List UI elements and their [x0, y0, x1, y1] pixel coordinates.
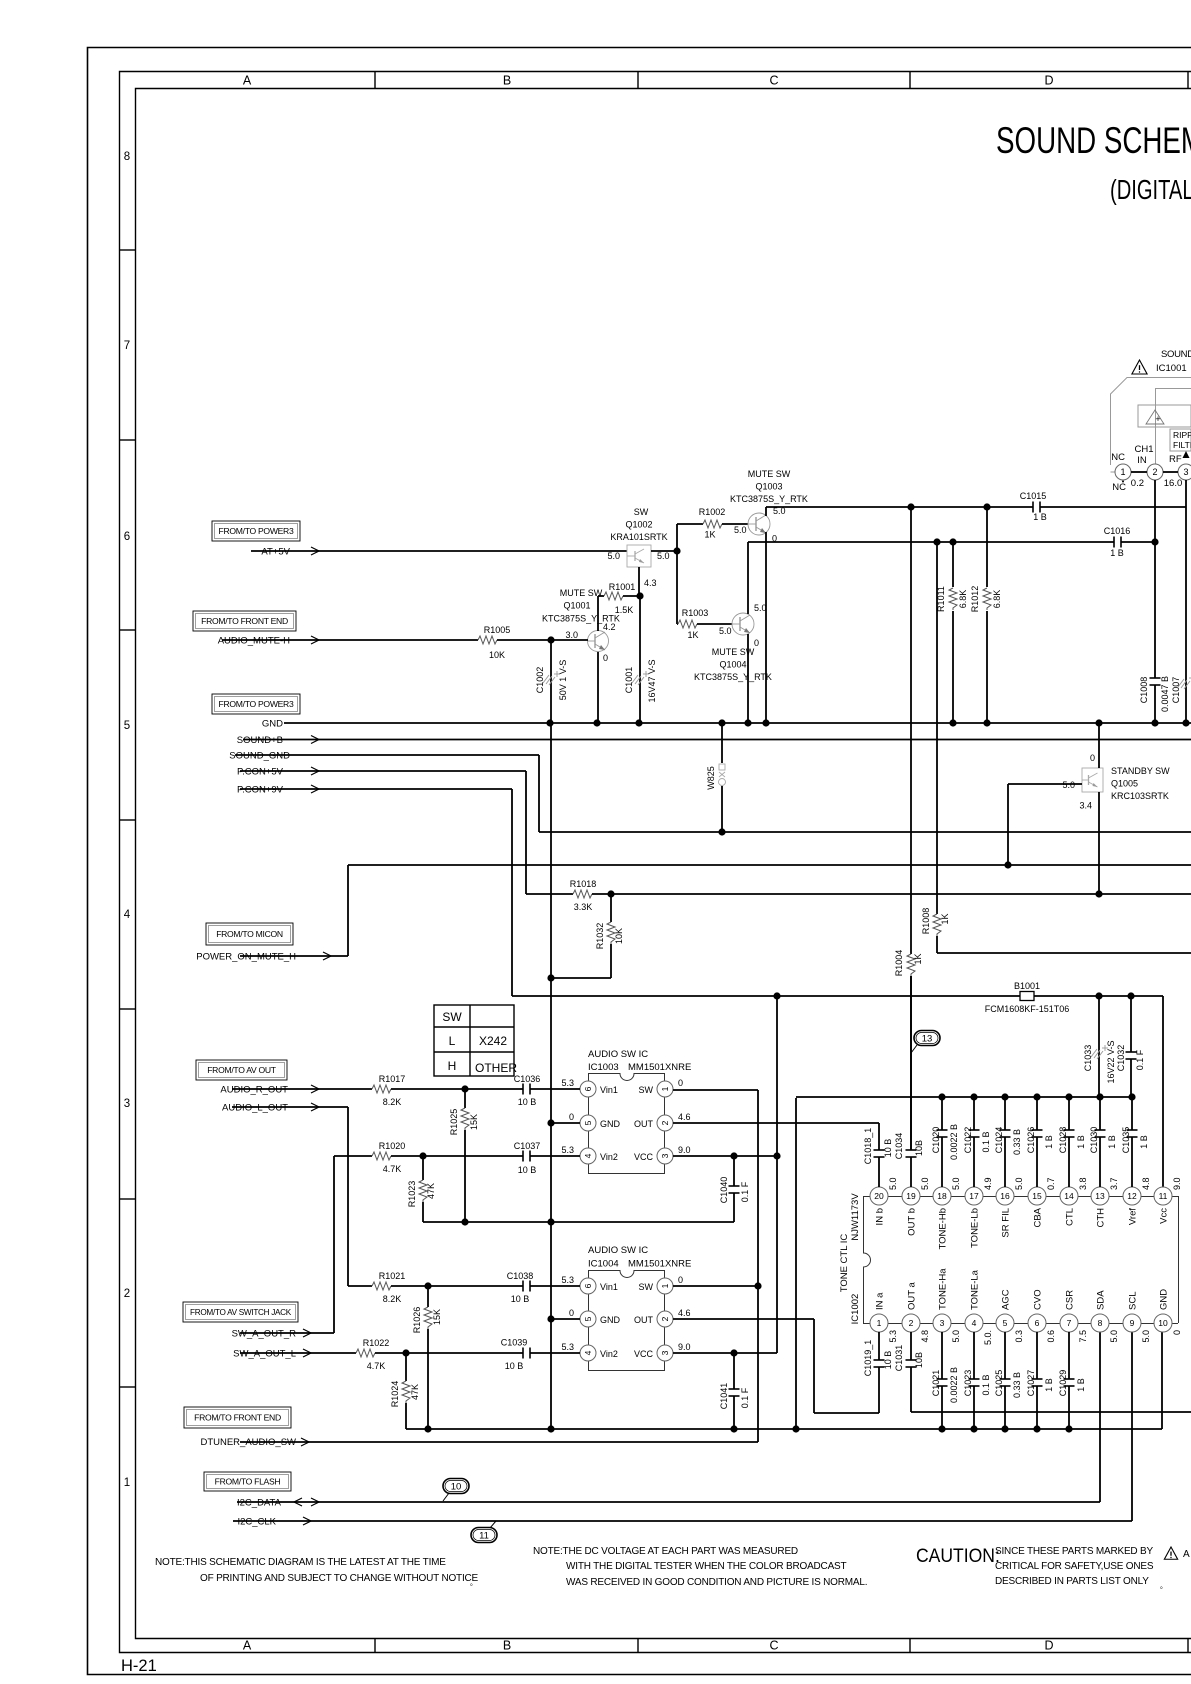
- svg-text:16.0: 16.0: [1164, 478, 1183, 489]
- svg-text:。: 。: [470, 1580, 477, 1587]
- net P.CON+9V: [237, 785, 512, 997]
- svg-text:DESCRIBED IN PARTS LIST ONLY: DESCRIBED IN PARTS LIST ONLY: [995, 1576, 1149, 1587]
- svg-text:SOUND_GND: SOUND_GND: [229, 751, 290, 762]
- svg-text:FROM/TO AV OUT: FROM/TO AV OUT: [207, 1065, 277, 1075]
- svg-text:8.2K: 8.2K: [383, 1097, 402, 1107]
- svg-text:R1022: R1022: [363, 1338, 390, 1348]
- wire IC1003 VCC rail: [673, 1152, 781, 1159]
- svg-text:C1008: C1008: [1139, 677, 1149, 704]
- svg-text:7.5: 7.5: [1078, 1330, 1088, 1343]
- pin 20 IC1002 IN b: [870, 1177, 898, 1225]
- pin 4 IC1003 Vin2: [561, 1145, 617, 1164]
- wire Q1002 out to node: [651, 524, 681, 555]
- svg-text:C1022: C1022: [963, 1127, 973, 1154]
- svg-text:0.1 F: 0.1 F: [1135, 1049, 1145, 1070]
- svg-text:2: 2: [909, 1318, 914, 1328]
- wire Q1005 top to GND bus: [1095, 719, 1102, 768]
- wire Q1005 bottom: [1095, 792, 1102, 898]
- svg-text:Q1005: Q1005: [1111, 779, 1138, 789]
- capacitor C1020 0.0022 B: [931, 1093, 959, 1187]
- svg-text:(DIGITAL TV: (DIGITAL TV: [1110, 175, 1191, 206]
- svg-text:3: 3: [940, 1318, 945, 1328]
- svg-text:A: A: [243, 1639, 252, 1653]
- capacitor C1016 1B: [1104, 526, 1131, 558]
- pin 2 IC1004 OUT: [634, 1308, 691, 1327]
- svg-text:4.9: 4.9: [983, 1177, 993, 1190]
- net SW_A_OUT_R: [232, 1156, 334, 1340]
- connector box FROM/TO AV SWITCH JACK: [183, 1302, 298, 1322]
- svg-text:9.0: 9.0: [1172, 1177, 1182, 1190]
- svg-text:B1001: B1001: [1014, 981, 1040, 991]
- svg-text:C1001: C1001: [624, 667, 634, 694]
- RIPPLE FILTER label: [1169, 430, 1191, 465]
- svg-text:Vin1: Vin1: [600, 1085, 618, 1095]
- connector box FROM/TO POWER3 (AT+5V): [212, 521, 300, 541]
- svg-text:10 B: 10 B: [518, 1165, 537, 1175]
- svg-text:OUT: OUT: [634, 1119, 654, 1129]
- svg-text:IN b: IN b: [875, 1208, 886, 1225]
- svg-text:R1021: R1021: [379, 1271, 406, 1281]
- resistor R1032 10K: [547, 894, 624, 982]
- svg-text:4: 4: [583, 1153, 593, 1158]
- svg-text:IC1001: IC1001: [1156, 363, 1187, 374]
- svg-text:5: 5: [583, 1120, 593, 1125]
- svg-text:C1007: C1007: [1171, 677, 1181, 704]
- svg-text:B: B: [503, 1639, 511, 1653]
- svg-text:X242: X242: [479, 1034, 507, 1048]
- capacitor C1007: [1171, 675, 1191, 703]
- svg-text:NC: NC: [1112, 482, 1126, 493]
- svg-text:C1038: C1038: [507, 1271, 534, 1281]
- svg-text:C1019_1: C1019_1: [863, 1340, 873, 1377]
- svg-text:7: 7: [124, 340, 130, 352]
- svg-text:1K: 1K: [913, 953, 923, 964]
- pin 9 IC1002 SCL: [1123, 1292, 1151, 1343]
- net I2C_DATA: [237, 1498, 1100, 1509]
- svg-text:5: 5: [583, 1316, 593, 1321]
- svg-text:AUDIO_R_OUT: AUDIO_R_OUT: [220, 1085, 288, 1096]
- svg-text:18: 18: [937, 1191, 947, 1201]
- svg-text:CTH: CTH: [1096, 1208, 1107, 1228]
- svg-text:9: 9: [1130, 1318, 1135, 1328]
- svg-text:MM1501XNRE: MM1501XNRE: [628, 1259, 691, 1270]
- svg-text:1 B: 1 B: [1033, 512, 1047, 522]
- svg-text:0.1 F: 0.1 F: [740, 1387, 750, 1408]
- svg-text:C1037: C1037: [514, 1141, 541, 1151]
- wire IC1004 OUT to C1019_1: [673, 1319, 879, 1413]
- svg-text:C1040: C1040: [719, 1177, 729, 1204]
- capacitor C1029 1 B: [1058, 1332, 1086, 1433]
- svg-text:0.6: 0.6: [1046, 1330, 1056, 1343]
- svg-text:NOTE:THIS SCHEMATIC DIAGRAM IS: NOTE:THIS SCHEMATIC DIAGRAM IS THE LATES…: [155, 1557, 446, 1568]
- svg-text:2: 2: [1152, 467, 1157, 477]
- svg-text:Q1002: Q1002: [625, 520, 652, 530]
- svg-text:3.0: 3.0: [565, 630, 578, 640]
- svg-text:GND: GND: [262, 719, 283, 730]
- svg-text:Q1003: Q1003: [755, 482, 782, 492]
- svg-text:5.0: 5.0: [1014, 1177, 1024, 1190]
- svg-text:CBA: CBA: [1033, 1207, 1044, 1227]
- svg-text:10 B: 10 B: [518, 1097, 537, 1107]
- svg-text:C1016: C1016: [1104, 526, 1131, 536]
- svg-text:0.33 B: 0.33 B: [1012, 1129, 1022, 1155]
- svg-text:3: 3: [660, 1350, 670, 1355]
- svg-text:FROM/TO MICON: FROM/TO MICON: [216, 929, 283, 939]
- svg-text:VCC: VCC: [634, 1349, 654, 1359]
- svg-text:SW_A_OUT_L: SW_A_OUT_L: [233, 1349, 296, 1360]
- warning triangle caution: [1164, 1547, 1177, 1559]
- svg-text:1: 1: [1120, 467, 1125, 477]
- svg-text:4.8: 4.8: [1141, 1177, 1151, 1190]
- svg-text:R1012: R1012: [970, 586, 980, 613]
- net POWER_ON_MUTE_H: [196, 865, 348, 963]
- pin 3 IC1001 RF: [1164, 464, 1191, 489]
- svg-text:6: 6: [124, 531, 130, 543]
- wire cap bottom rail IC1003: [423, 1221, 734, 1223]
- net AUDIO_R_OUT: [220, 1085, 372, 1096]
- svg-text:6: 6: [1035, 1318, 1040, 1328]
- svg-text:CTL: CTL: [1065, 1208, 1076, 1226]
- pin 18 IC1002 TONE-Hb: [933, 1177, 961, 1249]
- svg-text:WITH THE DIGITAL TESTER WHEN T: WITH THE DIGITAL TESTER WHEN THE COLOR B…: [566, 1561, 847, 1572]
- connector box FROM/TO MICON: [206, 923, 293, 945]
- svg-text:4.3: 4.3: [644, 578, 657, 588]
- svg-text:C1018_1: C1018_1: [863, 1128, 873, 1165]
- svg-text:TONE-Lb: TONE-Lb: [970, 1208, 981, 1248]
- svg-text:R1020: R1020: [379, 1141, 406, 1151]
- svg-text:5.0: 5.0: [1109, 1330, 1119, 1343]
- svg-text:5.0.: 5.0.: [983, 1330, 993, 1345]
- capacitor C1030 1 B: [1089, 1093, 1117, 1187]
- svg-text:CRITICAL FOR SAFETY,USE ONES: CRITICAL FOR SAFETY,USE ONES: [995, 1561, 1154, 1572]
- svg-text:SW: SW: [639, 1282, 654, 1292]
- connector box FROM/TO FRONT END (tuner): [184, 1407, 291, 1428]
- svg-text:15: 15: [1032, 1191, 1042, 1201]
- svg-text:5.0: 5.0: [719, 626, 732, 636]
- svg-text:0: 0: [569, 1308, 574, 1318]
- svg-text:15K: 15K: [469, 1114, 479, 1130]
- svg-text:L: L: [449, 1034, 456, 1048]
- wire SDA riser: [1099, 1331, 1101, 1502]
- svg-text:1: 1: [124, 1477, 130, 1489]
- svg-text:10K: 10K: [614, 928, 624, 944]
- svg-text:6.8K: 6.8K: [958, 590, 968, 609]
- resistor R1001 1.5K: [598, 578, 657, 615]
- svg-text:5: 5: [124, 720, 130, 732]
- svg-text:0.1 F: 0.1 F: [740, 1181, 750, 1202]
- svg-text:6.8K: 6.8K: [992, 590, 1002, 609]
- frame labels: [121, 74, 1054, 1676]
- capacitor C1028 1 B: [1058, 1093, 1086, 1187]
- svg-text:A: A: [1183, 1549, 1190, 1560]
- svg-text:SW: SW: [442, 1010, 462, 1024]
- svg-text:1 B: 1 B: [1044, 1135, 1054, 1149]
- svg-text:Vref: Vref: [1128, 1208, 1139, 1225]
- resistor R1024 47K: [390, 1353, 420, 1429]
- svg-text:4.7K: 4.7K: [383, 1164, 402, 1174]
- pin 8 IC1002 SDA: [1091, 1290, 1119, 1343]
- capacitor C1041 0.1F: [719, 1353, 750, 1433]
- svg-text:RIPPL: RIPPL: [1173, 430, 1191, 440]
- svg-text:5.0: 5.0: [657, 551, 670, 561]
- svg-text:10 B: 10 B: [511, 1294, 530, 1304]
- svg-text:1K: 1K: [704, 530, 715, 540]
- svg-text:TONE CTL IC: TONE CTL IC: [839, 1234, 850, 1293]
- svg-text:C1002: C1002: [535, 667, 545, 694]
- svg-text:3.4: 3.4: [1079, 801, 1092, 811]
- svg-text:50V 1 V-S: 50V 1 V-S: [558, 660, 568, 701]
- svg-text:Vin2: Vin2: [600, 1349, 618, 1359]
- svg-text:GND: GND: [600, 1119, 621, 1129]
- svg-text:8: 8: [124, 151, 130, 163]
- net AUDIO_MUTE-H: [218, 636, 478, 647]
- svg-text:CSR: CSR: [1065, 1290, 1076, 1310]
- wire pin2 drop: [1151, 480, 1158, 727]
- pin 3 IC1003 VCC: [634, 1145, 691, 1164]
- resistor R1023 47K: [407, 1156, 436, 1222]
- svg-text:3: 3: [660, 1153, 670, 1158]
- net P.CON+5V: [237, 767, 526, 895]
- svg-text:AUDIO_MUTE-H: AUDIO_MUTE-H: [218, 636, 290, 647]
- wire VCC vertical rail: [776, 996, 778, 1353]
- svg-text:C1030: C1030: [1089, 1127, 1099, 1154]
- pin 1 IC1004 SW: [639, 1275, 684, 1294]
- svg-text:4.8: 4.8: [920, 1330, 930, 1343]
- svg-text:TONE-Ha: TONE-Ha: [938, 1268, 949, 1310]
- svg-text:。: 。: [1160, 1583, 1167, 1590]
- svg-text:2: 2: [124, 1288, 130, 1300]
- svg-text:4.2: 4.2: [603, 622, 616, 632]
- svg-text:3: 3: [124, 1098, 130, 1110]
- svg-text:0: 0: [678, 1078, 683, 1088]
- svg-text:CAUTION:: CAUTION:: [916, 1544, 1000, 1566]
- svg-text:C: C: [769, 1639, 778, 1653]
- svg-text:R1003: R1003: [682, 608, 709, 618]
- svg-text:16V22 V-S: 16V22 V-S: [1106, 1040, 1116, 1083]
- svg-text:17: 17: [969, 1191, 979, 1201]
- capacitor C1021 0.0022 B: [931, 1332, 959, 1433]
- pin 1 IC1002 IN a: [870, 1292, 898, 1343]
- svg-text:3.7: 3.7: [1109, 1177, 1119, 1190]
- svg-text:5.0: 5.0: [754, 603, 767, 613]
- svg-text:VCC: VCC: [634, 1152, 654, 1162]
- svg-text:C1036: C1036: [514, 1074, 541, 1084]
- table SW/L/H: [434, 1005, 514, 1076]
- transistor Q1001 MUTE SW KTC3875S_Y_RTK: [542, 588, 620, 663]
- svg-text:MUTE SW: MUTE SW: [560, 588, 603, 598]
- wire POWER_ON_MUTE bus: [348, 864, 1191, 866]
- capacitor C1023 0.1 B: [963, 1332, 991, 1433]
- svg-text:0: 0: [603, 653, 608, 663]
- svg-text:KRC103SRTK: KRC103SRTK: [1111, 791, 1169, 801]
- svg-text:0.0047 B: 0.0047 B: [1160, 676, 1170, 712]
- svg-text:2: 2: [660, 1120, 670, 1125]
- jumper W825: [706, 719, 726, 835]
- svg-text:C1028: C1028: [1058, 1127, 1068, 1154]
- capacitor C1008 0.0047 B: [1139, 676, 1170, 723]
- svg-text:WAS RECEIVED IN GOOD CONDITION: WAS RECEIVED IN GOOD CONDITION AND PICTU…: [566, 1577, 867, 1588]
- resistor R1020 4.7K: [334, 1141, 523, 1174]
- capacitor C1019_1 10B: [863, 1332, 893, 1413]
- svg-text:FROM/TO FRONT END: FROM/TO FRONT END: [201, 616, 288, 626]
- svg-text:R1001: R1001: [609, 582, 636, 592]
- svg-text:10K: 10K: [489, 650, 505, 660]
- transistor Q1004 MUTE SW KTC3875S_Y_RTK: [694, 603, 772, 682]
- transistor Q1002 SW KRA101SRTK: [607, 507, 669, 567]
- resistor R1012 6.8K: [970, 507, 1002, 727]
- svg-text:0.0022 B: 0.0022 B: [949, 1124, 959, 1160]
- svg-text:4: 4: [972, 1318, 977, 1328]
- svg-text:8.2K: 8.2K: [383, 1294, 402, 1304]
- svg-text:KRA101SRTK: KRA101SRTK: [610, 532, 667, 542]
- svg-text:AUDIO_L_OUT: AUDIO_L_OUT: [222, 1103, 288, 1114]
- svg-text:6: 6: [583, 1283, 593, 1288]
- op-amp U IC1002 TONE CTL IC NJW1173V: [839, 1193, 1179, 1325]
- svg-text:SW: SW: [634, 507, 649, 517]
- svg-text:0: 0: [754, 638, 759, 648]
- svg-text:AT+5V: AT+5V: [261, 547, 290, 558]
- svg-text:10 B: 10 B: [505, 1361, 524, 1371]
- svg-text:14: 14: [1064, 1191, 1074, 1201]
- svg-text:8: 8: [1098, 1318, 1103, 1328]
- svg-text:1: 1: [660, 1283, 670, 1288]
- svg-text:5.0: 5.0: [951, 1177, 961, 1190]
- svg-text:0.2: 0.2: [1131, 478, 1144, 489]
- IC1001 label: [1156, 349, 1191, 374]
- svg-text:Q1001: Q1001: [563, 601, 590, 611]
- ferrite bead B1001 FCM1608KF-151T06: [512, 981, 1163, 1188]
- svg-text:3: 3: [1183, 467, 1188, 477]
- svg-text:19: 19: [906, 1191, 916, 1201]
- transistor Q1003 MUTE SW KTC3875S_Y_RTK: [730, 469, 808, 544]
- svg-text:+: +: [1155, 414, 1160, 424]
- transistor Q1005 STANDBY SW KRC103SRTK: [1062, 753, 1170, 811]
- svg-text:SCL: SCL: [1128, 1292, 1139, 1310]
- svg-text:TONE-La: TONE-La: [970, 1269, 981, 1310]
- wire top caps ground bus: [792, 1097, 1132, 1433]
- svg-text:5.3: 5.3: [561, 1145, 574, 1155]
- svg-text:P.CON+5V: P.CON+5V: [237, 767, 284, 778]
- svg-text:IC1003: IC1003: [588, 1062, 619, 1073]
- svg-text:OF PRINTING AND SUBJECT TO CHA: OF PRINTING AND SUBJECT TO CHANGE WITHOU…: [200, 1573, 479, 1584]
- svg-text:4: 4: [583, 1350, 593, 1355]
- svg-text:1K: 1K: [687, 630, 698, 640]
- svg-text:C: C: [769, 74, 778, 88]
- svg-text:R1005: R1005: [484, 625, 511, 635]
- svg-text:2: 2: [660, 1316, 670, 1321]
- note caution: [916, 1544, 1190, 1590]
- capacitor C1036 10B: [514, 1074, 580, 1107]
- wire Q1004 emitter: [744, 634, 751, 727]
- net AT+5V: [251, 547, 627, 558]
- svg-text:D: D: [1044, 74, 1053, 88]
- capacitor C1038 10B: [507, 1271, 580, 1304]
- svg-text:4.6: 4.6: [678, 1308, 691, 1318]
- svg-text:I2C_CLK: I2C_CLK: [237, 1517, 276, 1528]
- svg-text:10: 10: [1158, 1318, 1168, 1328]
- wire Q1001 collector: [597, 596, 599, 631]
- wire GND vertical bus: [547, 723, 554, 1433]
- svg-text:10 B: 10 B: [883, 1351, 893, 1370]
- svg-text:16: 16: [1000, 1191, 1010, 1201]
- svg-text:0.7: 0.7: [1046, 1177, 1056, 1190]
- warning triangle IC1001: [1132, 360, 1147, 374]
- pin 5 IC1004 GND: [569, 1308, 621, 1327]
- net SOUND_GND: [229, 751, 539, 833]
- svg-text:P.CON+9V: P.CON+9V: [237, 785, 284, 796]
- wire IC1003 SW to DTUNER riser: [673, 1090, 762, 1442]
- pin 1 IC1001 NC: [1111, 452, 1131, 493]
- svg-text:5.0: 5.0: [607, 551, 620, 561]
- wire Q1002 base drop: [638, 567, 640, 596]
- svg-text:C1025: C1025: [994, 1370, 1004, 1397]
- svg-text:SOUND+B: SOUND+B: [237, 735, 283, 746]
- svg-text:13: 13: [922, 1034, 933, 1045]
- pin 13 IC1002 CTH: [1091, 1177, 1119, 1227]
- pin 4 IC1002 TONE-La: [965, 1269, 993, 1345]
- svg-text:SR FIL: SR FIL: [1001, 1208, 1012, 1238]
- net I2C_CLK: [233, 1517, 1132, 1528]
- capacitor C1024 0.33 B: [994, 1093, 1022, 1187]
- wire IC1004 GND pin to bus: [551, 1318, 580, 1320]
- svg-text:W825: W825: [706, 766, 716, 790]
- svg-text:R1017: R1017: [379, 1074, 406, 1084]
- capacitor C1018_1 10B: [863, 1128, 893, 1187]
- net SOUND+B: [237, 735, 1191, 746]
- svg-text:1 B: 1 B: [1139, 1135, 1149, 1149]
- svg-text:5.3: 5.3: [888, 1330, 898, 1343]
- capacitor C1037 10B: [514, 1141, 580, 1175]
- svg-text:10B: 10B: [914, 1352, 924, 1368]
- svg-text:FCM1608KF-151T06: FCM1608KF-151T06: [985, 1004, 1070, 1014]
- capacitor C1022 0.1 B: [963, 1093, 991, 1187]
- resistor R1022 4.7K: [356, 1338, 523, 1371]
- svg-text:NOTE:THE DC VOLTAGE AT EACH PA: NOTE:THE DC VOLTAGE AT EACH PART WAS MEA…: [533, 1546, 798, 1557]
- svg-text:POWER_ON_MUTE_H: POWER_ON_MUTE_H: [196, 952, 296, 963]
- svg-text:C1026: C1026: [1026, 1127, 1036, 1154]
- capacitor C1033 16V22 V-S: [1083, 996, 1116, 1097]
- wire ground rail bottom: [406, 1331, 1162, 1429]
- svg-text:IN a: IN a: [875, 1292, 886, 1310]
- svg-text:R1023: R1023: [407, 1181, 417, 1208]
- svg-text:1 B: 1 B: [1110, 548, 1124, 558]
- capacitor C1040 0.1F: [719, 1156, 750, 1222]
- svg-text:1: 1: [660, 1086, 670, 1091]
- svg-text:C1020: C1020: [931, 1127, 941, 1154]
- resistor R1018 3.3K: [526, 879, 1191, 912]
- svg-text:11: 11: [1159, 1191, 1168, 1201]
- svg-text:3.3K: 3.3K: [574, 902, 593, 912]
- svg-text:0.0022 B: 0.0022 B: [949, 1367, 959, 1403]
- svg-text:OTHER: OTHER: [475, 1061, 517, 1075]
- svg-text:TONE-Hb: TONE-Hb: [938, 1208, 949, 1250]
- svg-text:MM1501XNRE: MM1501XNRE: [628, 1062, 691, 1073]
- svg-text:15K: 15K: [432, 1309, 442, 1325]
- svg-text:SOUND SCHEMATIC: SOUND SCHEMATIC: [996, 119, 1191, 161]
- wire Q1005 base: [1004, 784, 1082, 869]
- capacitor C1026 1 B: [1026, 1093, 1054, 1187]
- connector box FROM/TO AV OUT: [196, 1060, 287, 1080]
- node 11 oval: [471, 1521, 497, 1543]
- svg-text:R1032: R1032: [595, 923, 605, 950]
- pin 3 IC1004 VCC: [634, 1342, 691, 1361]
- svg-text:1 B: 1 B: [1076, 1378, 1086, 1392]
- pin 15 IC1002 CBA: [1028, 1177, 1056, 1227]
- op-amp U IC1003 AUDIO SW IC MM1501XNRE: [588, 1049, 691, 1174]
- resistor R1021 8.2K: [348, 1271, 523, 1304]
- svg-text:AUDIO SW IC: AUDIO SW IC: [588, 1049, 648, 1060]
- svg-text:FILTE: FILTE: [1173, 440, 1191, 450]
